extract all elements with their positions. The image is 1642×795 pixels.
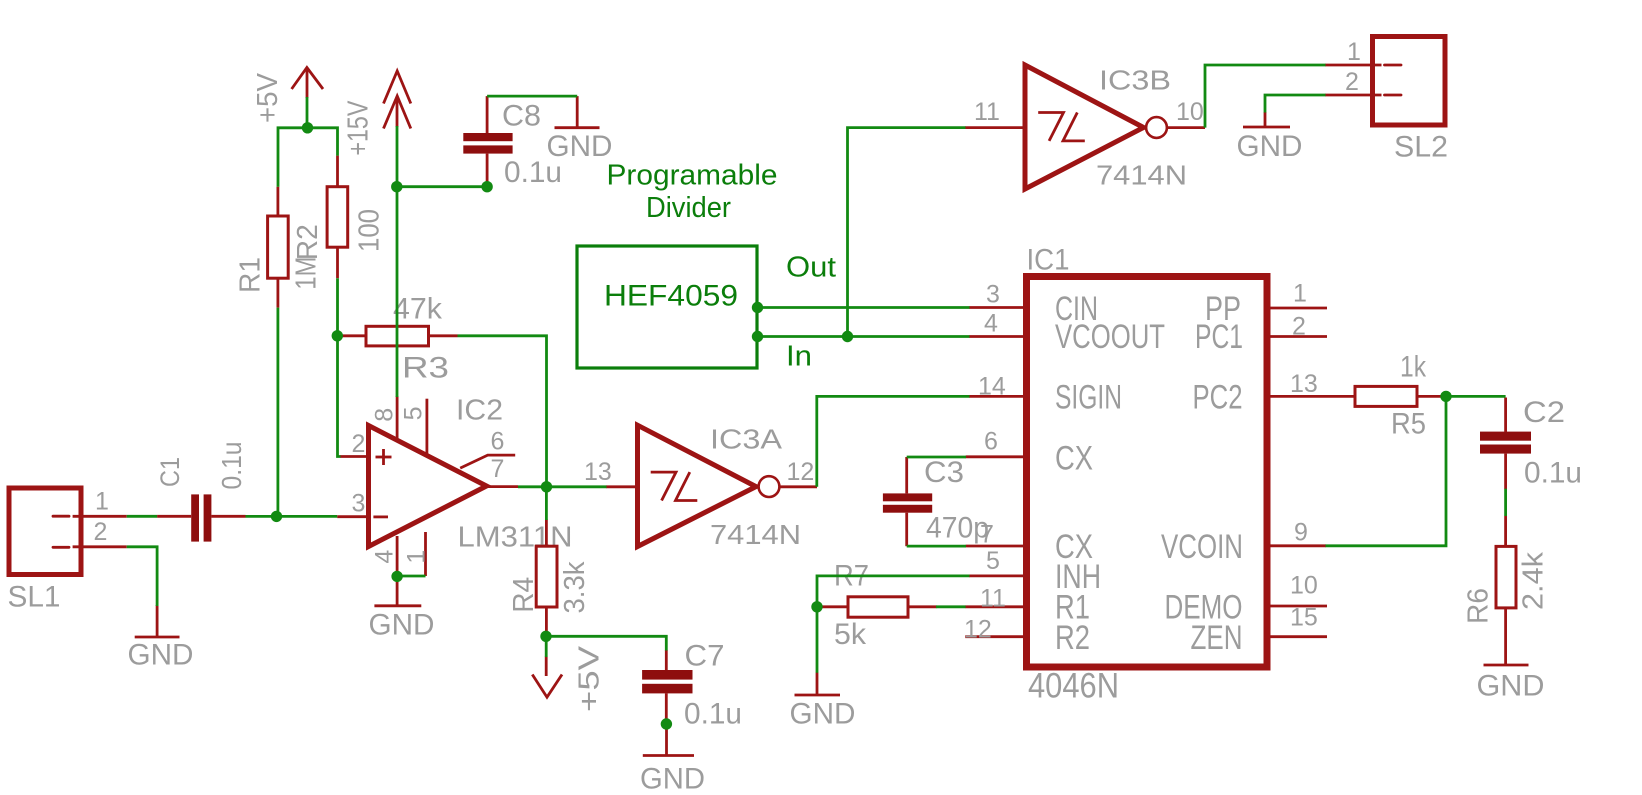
junction R7 INH gnd node — [811, 601, 822, 612]
svg-text:47k: 47k — [393, 293, 443, 326]
wire divider In to IC1 pin4 — [757, 335, 970, 338]
svg-text:R1: R1 — [235, 257, 267, 293]
ground symbol near SL2 — [1237, 112, 1303, 163]
wire R5 junction down to VCOIN — [1326, 396, 1447, 545]
svg-text:VCOIN: VCOIN — [1161, 528, 1243, 566]
wire SL2 pin2 to GND — [1265, 95, 1326, 113]
junction IC2 gnd node — [391, 571, 402, 582]
svg-text:R6: R6 — [1463, 588, 1495, 624]
svg-text:9: 9 — [1294, 519, 1308, 547]
svg-text:7: 7 — [980, 521, 994, 549]
svg-text:4: 4 — [371, 550, 399, 564]
ground symbol near C8 — [547, 96, 613, 163]
wire +5V to R1 — [278, 128, 308, 187]
svg-text:14: 14 — [978, 373, 1006, 401]
svg-text:11: 11 — [980, 585, 1006, 613]
capacitor C1 — [155, 442, 247, 542]
svg-text:1: 1 — [1293, 280, 1307, 308]
svg-text:6: 6 — [491, 428, 505, 456]
svg-text:IC2: IC2 — [456, 395, 503, 427]
wire divider Out to IC1 pin3 — [757, 306, 970, 309]
supply +5V symbol — [252, 68, 323, 124]
IC1 pin 14 SIGIN stub — [969, 395, 1027, 398]
svg-text:11: 11 — [974, 98, 1000, 126]
svg-text:1: 1 — [403, 550, 431, 564]
wire C3 bottom to IC1 pin7 — [907, 545, 966, 548]
op-amp comparator IC2 LM311N — [337, 395, 572, 579]
IC1 pin 9 VCOIN stub — [1267, 544, 1326, 547]
inverter IC3B 7414N — [965, 65, 1205, 191]
supply +15V symbol — [343, 71, 411, 156]
svg-text:15: 15 — [1290, 604, 1318, 632]
svg-text:4: 4 — [984, 310, 998, 338]
capacitor C2 — [1480, 396, 1582, 490]
wire INH net — [817, 576, 970, 607]
svg-text:7: 7 — [491, 455, 505, 483]
wire C1 to IC2 pin3 — [246, 515, 338, 518]
svg-text:R2: R2 — [1055, 619, 1090, 657]
svg-text:Programable: Programable — [607, 160, 778, 192]
svg-text:+5V: +5V — [252, 72, 284, 123]
svg-text:2: 2 — [1345, 68, 1359, 96]
junction C7 gnd node — [661, 718, 672, 729]
wire R1 bottom to input net — [276, 308, 279, 517]
ground symbol under R6 — [1477, 665, 1545, 703]
IC1 pin 6 CX stub — [966, 455, 1027, 458]
svg-text:1M: 1M — [291, 257, 323, 290]
svg-text:GND: GND — [790, 698, 856, 731]
svg-text:100: 100 — [354, 209, 386, 252]
svg-text:C8: C8 — [502, 100, 541, 133]
junction divider In node — [752, 331, 763, 342]
svg-text:HEF4059: HEF4059 — [604, 280, 738, 313]
svg-text:ZEN: ZEN — [1191, 619, 1243, 657]
svg-text:3: 3 — [352, 490, 366, 518]
wire IC3A pin12 up to SIGIN — [817, 396, 970, 486]
junction input node at C1 — [271, 511, 282, 522]
svg-text:PC1: PC1 — [1195, 318, 1243, 356]
IC1 pin 3 CIN stub — [969, 306, 1027, 309]
svg-text:C1: C1 — [155, 457, 185, 487]
IC U1 4046N box — [964, 244, 1355, 706]
svg-text:1k: 1k — [1400, 351, 1427, 384]
svg-text:SL2: SL2 — [1394, 131, 1448, 164]
inverter IC3A 7414N — [584, 424, 817, 551]
svg-text:GND: GND — [1237, 130, 1303, 163]
junction IC2 output node — [541, 481, 552, 492]
wire In node up to IC3B pin11 — [848, 128, 966, 337]
wire +15V down to IC2 pin8 — [396, 187, 399, 397]
resistor R3 — [340, 293, 458, 385]
IC1 pin 13 PC2 stub — [1267, 395, 1355, 398]
svg-text:5k: 5k — [834, 618, 867, 651]
wire SL1 pin1 to C1 — [127, 515, 157, 518]
connector SL1 — [8, 488, 127, 614]
IC1 pin 4 VCOOUT stub — [969, 335, 1027, 338]
IC1 pin 7 CX stub — [966, 545, 1027, 548]
svg-text:2: 2 — [352, 430, 366, 458]
svg-text:5: 5 — [986, 547, 1000, 575]
resistor R6 — [1463, 516, 1550, 665]
supply +5V arrow down at R4 — [532, 645, 605, 712]
svg-text:4046N: 4046N — [1028, 667, 1119, 706]
IC1 pin 12 R2 stub — [965, 635, 1026, 638]
IC1 pin 5 INH stub — [969, 575, 1027, 578]
wire IC2 pin1 to pin4 gnd — [397, 575, 425, 578]
wire +15V to C8 — [397, 185, 487, 188]
svg-text:0.1u: 0.1u — [1524, 457, 1582, 490]
capacitor C3 — [883, 456, 989, 546]
svg-text:C7: C7 — [685, 640, 725, 673]
wire R2 bottom to IC2 pin2 — [338, 278, 341, 456]
svg-text:IC3A: IC3A — [710, 424, 782, 455]
svg-text:1: 1 — [95, 488, 109, 516]
wire +15V stem — [396, 126, 399, 187]
svg-text:R3: R3 — [402, 352, 449, 385]
svg-text:Out: Out — [786, 252, 836, 284]
junction +5V node — [302, 122, 313, 133]
svg-text:R4: R4 — [508, 577, 540, 613]
svg-text:13: 13 — [584, 458, 612, 486]
ground symbol under C7 — [640, 724, 705, 795]
wire output node down to R4 — [545, 487, 548, 520]
IC1 pin 15 ZEN stub — [1267, 635, 1327, 638]
junction In IC3B node — [842, 331, 853, 342]
capacitor C7 — [642, 640, 742, 731]
svg-text:2: 2 — [1292, 313, 1306, 341]
svg-text:2.4k: 2.4k — [1518, 551, 1550, 610]
wire SL1 pin2 to GND — [127, 547, 157, 606]
wire R5 to C2 — [1444, 395, 1506, 398]
IC1 pin 11 R1 stub — [965, 605, 1026, 608]
svg-text:0.1u: 0.1u — [216, 442, 247, 490]
svg-text:R5: R5 — [1391, 408, 1426, 441]
svg-text:GND: GND — [1477, 670, 1545, 703]
junction C8 node — [481, 181, 492, 192]
svg-text:IC3B: IC3B — [1099, 65, 1171, 96]
wire IC2 pin7 to IC3A pin13 — [518, 485, 607, 488]
wire C3 top to IC1 pin6 — [907, 456, 966, 459]
wire +5V to R2 — [308, 128, 338, 156]
svg-text:10: 10 — [1176, 98, 1204, 126]
resistor R7 — [819, 560, 937, 652]
wire R3 left junction — [337, 334, 341, 337]
ground symbol under IC2 — [369, 578, 435, 642]
wire R4 bottom to C7 — [546, 636, 667, 650]
wire C8 top to GND — [487, 95, 577, 98]
svg-text:GND: GND — [369, 609, 435, 642]
svg-text:+15V: +15V — [343, 100, 375, 156]
wire R7 to IC1 pin11 — [936, 605, 966, 608]
svg-text:2: 2 — [94, 518, 108, 546]
svg-text:12: 12 — [964, 616, 992, 644]
svg-text:SIGIN: SIGIN — [1055, 379, 1122, 417]
svg-text:GND: GND — [640, 763, 705, 795]
svg-text:5: 5 — [400, 406, 428, 420]
svg-text:PC2: PC2 — [1193, 379, 1243, 417]
svg-text:CX: CX — [1055, 440, 1093, 478]
svg-text:10: 10 — [1290, 572, 1318, 600]
junction R5 C2 node — [1440, 391, 1451, 402]
svg-text:13: 13 — [1290, 370, 1318, 398]
svg-text:1: 1 — [1347, 38, 1361, 66]
connector SL2 — [1325, 37, 1448, 164]
junction +15V node — [391, 181, 402, 192]
junction R2 R3 node — [332, 330, 343, 341]
IC1 pin 1 PP stub — [1267, 307, 1327, 310]
svg-text:3: 3 — [986, 281, 1000, 309]
svg-text:8: 8 — [371, 408, 399, 422]
svg-text:VCOOUT: VCOOUT — [1055, 318, 1165, 356]
IC1 pin 10 DEMO stub — [1267, 605, 1327, 608]
resistor R1 — [235, 187, 323, 308]
IC1 pin 2 PC1 stub — [1267, 335, 1327, 338]
svg-text:0.1u: 0.1u — [504, 156, 562, 189]
junction divider Out node — [752, 302, 763, 313]
resistor R4 — [508, 520, 591, 637]
ground symbol under SL1 — [128, 605, 194, 672]
svg-text:6: 6 — [984, 428, 998, 456]
wire R7 junction down to GND — [816, 607, 819, 673]
wire R3 right to output node — [458, 336, 547, 487]
svg-text:R2: R2 — [292, 224, 324, 260]
wire R4 bottom to +5V arrow — [545, 636, 548, 657]
svg-text:C3: C3 — [924, 456, 964, 489]
svg-text:0.1u: 0.1u — [684, 698, 742, 731]
svg-text:In: In — [786, 341, 812, 373]
resistor R2 — [292, 156, 386, 279]
resistor R5 — [1355, 351, 1444, 441]
svg-text:7414N: 7414N — [710, 519, 801, 550]
svg-text:GND: GND — [128, 639, 194, 672]
svg-text:12: 12 — [787, 458, 815, 486]
svg-text:+5V: +5V — [574, 645, 606, 712]
wire IC3B pin10 to SL2 pin1 — [1205, 65, 1326, 128]
svg-text:C2: C2 — [1523, 396, 1565, 429]
capacitor C8 — [463, 96, 562, 189]
junction R4 bottom node — [540, 631, 551, 642]
svg-text:SL1: SL1 — [8, 581, 61, 614]
svg-text:7414N: 7414N — [1096, 160, 1187, 191]
svg-text:3.3k: 3.3k — [559, 561, 591, 613]
svg-text:IC1: IC1 — [1027, 244, 1070, 277]
wire C2 bottom to R6 — [1504, 489, 1507, 516]
programmable divider box HEF4059 — [577, 246, 757, 368]
ground symbol under R7 — [790, 673, 856, 731]
wire +5V stem — [306, 97, 309, 128]
svg-text:Divider: Divider — [646, 192, 731, 224]
